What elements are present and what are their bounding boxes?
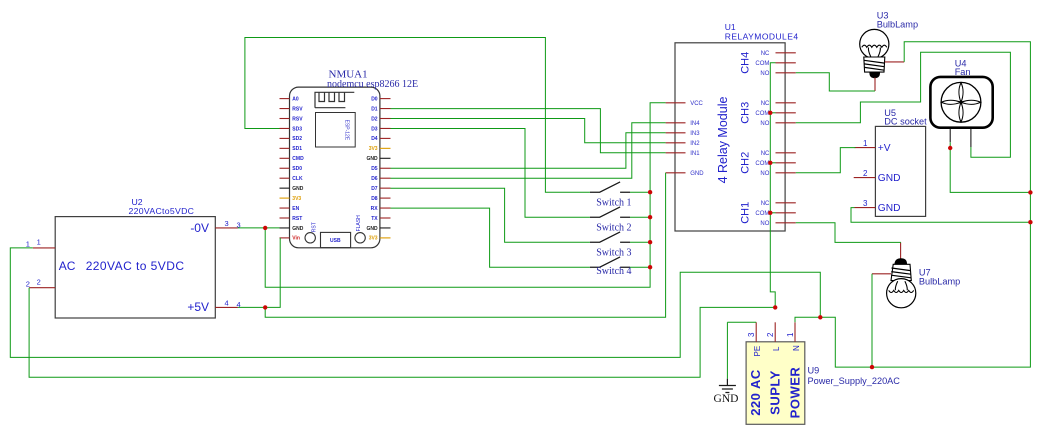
svg-text:NO: NO (760, 71, 769, 77)
nodemcu right pin D4 stub (380, 137, 391, 139)
svg-text:GND: GND (878, 203, 901, 214)
junction CH2 COM (768, 161, 772, 165)
svg-text:3V3: 3V3 (369, 236, 378, 242)
svg-text:220VACto5VDC: 220VACto5VDC (129, 206, 195, 216)
bulb U7 screw threads (891, 268, 911, 278)
switch 1 output wire (630, 191, 650, 193)
U2 pin 2 stub (29, 287, 55, 289)
svg-text:RST: RST (292, 216, 302, 222)
wire CH3 NO to fan right (796, 52, 1011, 157)
U3 bottom pin stub (874, 78, 876, 92)
wire PE to ground (727, 321, 756, 323)
svg-text:D1: D1 (371, 106, 378, 112)
U9 pin 3 stub (755, 322, 757, 342)
bulb U3 screw base (864, 57, 885, 72)
svg-text:NO: NO (760, 121, 769, 127)
svg-text:+5V: +5V (187, 300, 209, 314)
svg-text:3V3: 3V3 (292, 196, 301, 202)
svg-text:D7: D7 (371, 186, 378, 192)
U3 right pin stub (885, 61, 904, 63)
nodemcu left pin RSV stub (280, 118, 290, 120)
nodemcu right pin D8 stub (380, 197, 391, 199)
svg-text:D0: D0 (371, 96, 378, 102)
svg-text:1: 1 (37, 238, 41, 247)
U5 pin 1 stub (855, 147, 876, 149)
svg-text:A0: A0 (292, 96, 299, 102)
wire RX to switch 4 (391, 208, 590, 267)
relay CH4 pin NO stub (776, 72, 796, 74)
nodemcu antenna (315, 92, 354, 107)
wire SD3 to switch 1 (245, 38, 590, 193)
svg-text:Switch 1: Switch 1 (596, 197, 631, 208)
wire U2 pin2 to L junction (29, 288, 775, 378)
svg-text:SD0: SD0 (292, 166, 302, 172)
svg-text:EN: EN (292, 206, 299, 212)
switch 1 contacts and lever (590, 182, 630, 192)
svg-text:CH1: CH1 (740, 202, 752, 224)
relay pin GND stub (666, 172, 686, 174)
svg-text:BulbLamp: BulbLamp (919, 277, 960, 287)
wire CH1 COM connector (770, 212, 775, 214)
wire D2 to IN2 (391, 119, 666, 143)
svg-text:D5: D5 (371, 166, 378, 172)
bulb U3 screw threads (864, 60, 885, 70)
svg-text:-0V: -0V (190, 221, 209, 235)
bulb U7 screw base (891, 264, 911, 280)
nodemcu right pin GND stub (380, 227, 391, 229)
svg-text:4 Relay Module: 4 Relay Module (716, 97, 730, 184)
svg-text:CH3: CH3 (740, 102, 752, 124)
svg-text:GND: GND (366, 226, 378, 232)
svg-text:GND: GND (714, 393, 739, 405)
nodemcu right pin D2 stub (380, 118, 391, 120)
svg-text:CH4: CH4 (740, 52, 752, 74)
svg-text:Switch 3: Switch 3 (596, 247, 631, 258)
fan left pin stub (949, 129, 951, 142)
wire CH3 COM connector (770, 112, 775, 114)
wire CH1 NO to U7 top (796, 223, 901, 243)
svg-text:220VAC to 5VDC: 220VAC to 5VDC (86, 259, 185, 273)
U9 pin 2 stub (774, 322, 776, 342)
svg-text:+V: +V (878, 143, 891, 154)
U9 pin 1 stub (794, 322, 796, 342)
svg-text:GND: GND (292, 226, 304, 232)
svg-text:PE: PE (753, 346, 762, 357)
relay CH1 pin COM stub (776, 212, 796, 214)
nodemcu left pin SD3 stub (280, 127, 290, 129)
svg-text:1: 1 (863, 139, 868, 148)
svg-text:Vin: Vin (292, 236, 300, 242)
nodemcu left pin CLK stub (280, 177, 290, 179)
relay pin IN1 stub (666, 152, 686, 154)
nodemcu left pin 3V3 stub (280, 197, 290, 199)
relay CH4 pin NC stub (776, 52, 796, 54)
nodemcu right pin D7 stub (380, 187, 391, 189)
wire +5V rail to relay GND (265, 173, 665, 317)
relay CH3 pin NO stub (776, 122, 796, 124)
nodemcu right pin D5 stub (380, 167, 391, 169)
U2 pin 1 stub (33, 247, 55, 249)
nodemcu left pin GND stub (280, 227, 290, 229)
bulb U7 filament (889, 281, 914, 292)
svg-text:GND: GND (292, 186, 304, 192)
fan right pin stub (970, 129, 972, 147)
junction switch 4 common (648, 265, 652, 269)
nodemcu left pin CMD stub (280, 157, 290, 159)
svg-text:GND: GND (366, 156, 378, 162)
junction -0V (263, 226, 267, 230)
converter U2 body (55, 217, 215, 318)
wire +5V to Vin (238, 238, 280, 308)
svg-text:D2: D2 (371, 116, 378, 122)
svg-text:U9: U9 (808, 365, 820, 375)
ground wire from PE (726, 322, 728, 379)
svg-text:3: 3 (225, 219, 229, 228)
wire L junction to COM chain (770, 63, 775, 308)
svg-text:nodemcu esp8266 12E: nodemcu esp8266 12E (327, 79, 418, 90)
svg-text:RX: RX (371, 206, 379, 212)
svg-text:D4: D4 (371, 136, 378, 142)
relay pin IN2 stub (666, 142, 686, 144)
nodemcu left pin RSV stub (280, 108, 290, 110)
svg-text:GND: GND (878, 173, 901, 184)
svg-text:L: L (772, 346, 781, 351)
nodemcu left pin SD0 stub (280, 167, 290, 169)
wire D5 to IN3 (391, 133, 666, 169)
svg-text:IN4: IN4 (690, 121, 700, 127)
svg-text:1: 1 (26, 240, 30, 249)
svg-text:1: 1 (786, 332, 795, 337)
U2 pin 4 stub (215, 306, 238, 308)
nodemcu RST button (305, 233, 315, 243)
relay CH1 pin NC stub (776, 202, 796, 204)
nodemcu USB connector (321, 232, 351, 247)
junction +5V (263, 305, 267, 309)
U5 pin 3 stub (855, 207, 876, 209)
svg-text:COM: COM (755, 161, 769, 167)
svg-text:3: 3 (863, 199, 868, 208)
relay CH2 pin NC stub (776, 152, 796, 154)
svg-text:Switch 4: Switch 4 (596, 266, 631, 277)
bulb U3 glass (860, 29, 889, 58)
relay CH3 pin COM stub (776, 112, 796, 114)
relay pin IN3 stub (666, 132, 686, 134)
svg-text:FLASH: FLASH (356, 215, 362, 232)
svg-text:2: 2 (863, 169, 868, 178)
switch 2 contacts and lever (590, 207, 630, 217)
svg-text:220 AC: 220 AC (748, 369, 763, 416)
svg-text:D6: D6 (371, 176, 378, 182)
svg-text:3V3: 3V3 (369, 146, 378, 152)
svg-text:D3: D3 (371, 126, 378, 132)
svg-text:NO: NO (760, 171, 769, 177)
wire CH2 COM connector (770, 162, 775, 164)
svg-text:Switch 2: Switch 2 (596, 222, 631, 233)
switch 4 output wire (630, 266, 650, 268)
relay CH1 pin NO stub (776, 222, 796, 224)
svg-text:CLK: CLK (292, 176, 303, 182)
svg-text:COM: COM (755, 211, 769, 217)
nodemcu left pin A0 stub (280, 98, 290, 100)
nodemcu right pin RX stub (380, 207, 391, 209)
wire fan left pin down (950, 142, 1030, 192)
junction fan left pin (948, 146, 952, 150)
svg-text:GND: GND (690, 171, 704, 177)
nodemcu right pin 3V3 stub (380, 237, 391, 239)
wire D6 to IN4 (391, 123, 666, 178)
wire D1 to IN1 (391, 109, 666, 153)
svg-text:USB: USB (330, 238, 341, 244)
svg-text:ESP-12E: ESP-12E (344, 120, 350, 141)
svg-text:NC: NC (761, 101, 770, 107)
fan U4 body (930, 77, 992, 128)
svg-text:RELAYMODULE4: RELAYMODULE4 (725, 32, 799, 42)
power supply U9 body (746, 342, 805, 425)
nodemcu left pin Vin stub (280, 237, 290, 239)
svg-text:RST: RST (312, 222, 318, 232)
wire -0V to nodemcu GND (238, 227, 280, 229)
ground symbol (719, 379, 736, 393)
svg-text:Fan: Fan (955, 67, 971, 77)
junction switch 1 common (648, 190, 652, 194)
fan U4 circle (941, 82, 981, 122)
svg-text:SUPLY: SUPLY (768, 370, 783, 415)
junction CH3 COM (768, 111, 772, 115)
wire N junction to U9 N pin (795, 317, 820, 322)
DC socket U5 body (875, 126, 925, 216)
junction switch 3 common (648, 240, 652, 244)
fan U4 blades (941, 83, 980, 122)
bulb U7 glass (887, 279, 916, 308)
wire D3 to switch 2 (391, 129, 590, 218)
svg-text:AC: AC (59, 259, 76, 273)
svg-text:4: 4 (225, 299, 229, 308)
relay module U1 body (675, 43, 785, 231)
svg-text:N: N (792, 345, 801, 351)
nodemcu left pin SD2 stub (280, 137, 290, 139)
svg-text:NO: NO (760, 221, 769, 227)
wire CH4 NO to U3 bottom (796, 73, 875, 91)
nodemcu left pin EN stub (280, 207, 290, 209)
bulb U3 tip (870, 72, 880, 78)
relay CH4 pin COM stub (776, 62, 796, 64)
svg-text:TX: TX (371, 216, 378, 222)
svg-text:COM: COM (755, 61, 769, 67)
U2 pin 3 stub (215, 227, 238, 229)
nodemcu right pin D1 stub (380, 108, 391, 110)
svg-text:SD1: SD1 (292, 146, 302, 152)
wire N junction to bottom-right rail (820, 42, 1030, 367)
U7 left pin stub (872, 273, 891, 275)
svg-text:Power_Supply_220AC: Power_Supply_220AC (808, 376, 901, 386)
switch 3 contacts and lever (590, 232, 630, 242)
svg-text:SD2: SD2 (292, 136, 302, 142)
svg-text:VCC: VCC (690, 101, 703, 107)
svg-text:D8: D8 (371, 196, 378, 202)
svg-text:NC: NC (761, 201, 770, 207)
nodemcu ESP-12E shield box (316, 113, 356, 148)
nodemcu right pin D3 stub (380, 127, 391, 129)
switch 3 output wire (630, 241, 650, 243)
nodemcu FLASH button (355, 233, 365, 243)
svg-text:IN2: IN2 (690, 141, 700, 147)
junction switch 2 common (648, 215, 652, 219)
svg-text:RSV: RSV (292, 116, 303, 122)
switch 2 output wire (630, 216, 650, 218)
svg-text:CH2: CH2 (740, 152, 752, 174)
svg-text:2: 2 (37, 277, 41, 286)
junction U7 left (870, 365, 874, 369)
junction right rail fan (1028, 190, 1032, 194)
svg-text:RSV: RSV (292, 106, 303, 112)
wire GND rail to switch common (265, 103, 665, 287)
wire U2 pin1 to N junction (10, 248, 820, 358)
svg-text:2: 2 (766, 332, 775, 337)
relay CH2 pin NO stub (776, 172, 796, 174)
junction CH1 COM (768, 211, 772, 215)
nodemcu left pin RST stub (280, 217, 290, 219)
junction right rail U5 (1028, 220, 1032, 224)
nodemcu NMUA1 body (290, 87, 380, 248)
svg-text:2: 2 (26, 279, 30, 288)
relay pin VCC stub (666, 102, 686, 104)
svg-text:IN1: IN1 (690, 151, 700, 157)
svg-text:3: 3 (747, 332, 756, 337)
wire CH2 NO to U5 +V (796, 148, 856, 173)
svg-text:NC: NC (761, 151, 770, 157)
nodemcu right pin TX stub (380, 217, 391, 219)
junction N pin (818, 315, 822, 319)
wire U5 pin3 to right rail (851, 208, 1030, 223)
U5 pin 2 stub (854, 177, 876, 179)
nodemcu right pin GND stub (380, 157, 391, 159)
nodemcu right pin D0 stub (380, 98, 391, 100)
svg-text:COM: COM (755, 111, 769, 117)
svg-text:SD3: SD3 (292, 126, 302, 132)
switch 4 contacts and lever (590, 257, 630, 267)
svg-text:POWER: POWER (788, 367, 803, 419)
nodemcu left pin GND stub (280, 187, 290, 189)
nodemcu left pin SD1 stub (280, 147, 290, 149)
svg-text:DC socket: DC socket (884, 117, 927, 127)
nodemcu right pin 3V3 stub (380, 147, 391, 149)
wire U7 left pin down (871, 274, 873, 367)
relay CH2 pin COM stub (776, 162, 796, 164)
wire D7 to switch 3 (391, 188, 590, 242)
nodemcu right pin D6 stub (380, 177, 391, 179)
svg-text:CMD: CMD (292, 156, 304, 162)
svg-text:IN3: IN3 (690, 131, 700, 137)
bulb U7 tip (895, 259, 907, 265)
relay CH3 pin NC stub (776, 102, 796, 104)
U7 top pin stub (900, 242, 902, 259)
svg-text:BulbLamp: BulbLamp (877, 20, 918, 30)
bulb U3 filament (862, 45, 887, 57)
svg-text:NC: NC (761, 51, 770, 57)
junction L pin (773, 305, 777, 309)
relay pin IN4 stub (666, 122, 686, 124)
